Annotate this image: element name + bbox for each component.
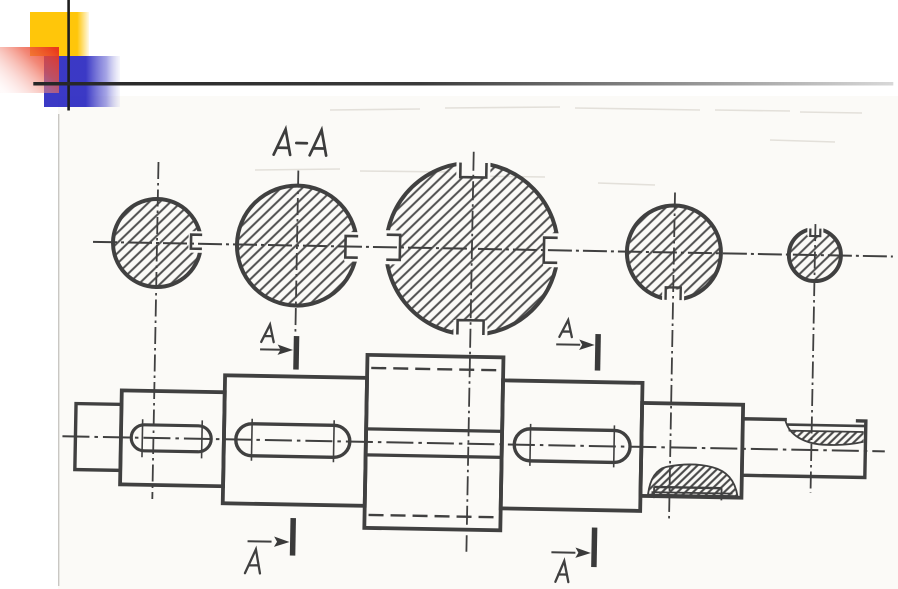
section 6 keyway slot bottom line (654, 487, 721, 488)
corner decoration: vertical black line (67, 0, 70, 111)
shaft section 2 (120, 390, 225, 486)
keyway slot outline circle 2 (345, 236, 358, 258)
cutting plane thick bar (293, 336, 299, 370)
circle 2 vertical center line (295, 171, 298, 332)
section 6 keyway slot left end wall (653, 487, 655, 498)
scan noise marks (255, 107, 862, 185)
scan left edge (58, 114, 60, 586)
cutting plane thick bar (290, 518, 296, 556)
section 4 hidden top keyway dashed line (371, 368, 499, 370)
keyway slot 1 right arc-center tick (201, 420, 204, 458)
keyway cut circle 3 top (456, 155, 490, 177)
scanned paper background (58, 96, 898, 589)
section 4 side keyway upper edge line (366, 429, 502, 431)
letter A label (555, 561, 568, 582)
cutting mark lower-left (245, 517, 296, 574)
letter A label (245, 549, 260, 573)
shaft section 7 (right end) (742, 419, 866, 478)
shaft section 3 (223, 375, 367, 506)
keyway slot 2 left arc-center tick (250, 419, 253, 461)
corner decoration: yellow square (30, 12, 89, 56)
shaft section 6 (640, 403, 743, 498)
cutting plane thick bar (595, 334, 601, 371)
view direction arrow (260, 348, 282, 350)
letter A label (559, 320, 572, 337)
view direction arrow (248, 540, 272, 542)
circle 3 vertical center line (466, 152, 473, 552)
section 4 side keyway lower edge line (366, 455, 502, 457)
section 7 freehand break line (785, 420, 864, 446)
section circle 2 (236, 184, 358, 306)
corner decoration: red square (0, 47, 59, 93)
keyway slot 3 left arc-center tick (529, 424, 532, 466)
section circle 3 (4 keyways) (384, 161, 559, 336)
keyway cut circle 5 top (807, 224, 823, 236)
shaft section 4 (middle) (364, 355, 503, 530)
keyway slot 1 on section 2 (131, 425, 211, 452)
keyway slot 3 on section 5 (514, 429, 630, 463)
keyway slot 1 left arc-center tick (141, 419, 144, 457)
section 7 keyway slot upper edge line (787, 425, 865, 426)
axis line through section circles (93, 242, 893, 257)
keyway cut circle 4 bottom (662, 289, 684, 303)
corner decoration: blue square (44, 56, 120, 107)
broken-out section on section 7 (hatched break area) (785, 420, 864, 446)
shaft axis line (62, 436, 884, 451)
circle 1 vertical center line (152, 162, 158, 499)
section 6 keyway slot right end wall (720, 488, 722, 500)
keyway slot 3 right arc-center tick (613, 425, 616, 467)
section 6 keyway slot lower edge line (652, 492, 733, 493)
letter A label (261, 324, 274, 342)
keyway cut circle 2 (344, 232, 363, 262)
keyway cut circle 1 (188, 231, 207, 253)
shaft section 5 (501, 380, 643, 511)
section circle 5 (788, 229, 841, 282)
section 4 hidden bottom keyway dashed line (369, 515, 497, 517)
keyway slot 2 right arc-center tick (332, 420, 335, 462)
keyway cut circle 3 left (382, 230, 401, 264)
circle 4 vertical center line (669, 192, 675, 520)
cutting mark upper-left (260, 324, 300, 369)
keyway cut circle 3 right (543, 233, 562, 267)
keyway cut circle 3 bottom (453, 320, 487, 342)
cutting mark upper-right (556, 320, 601, 371)
view direction arrow (551, 551, 575, 553)
entire tilted scanned drawing (60, 125, 895, 588)
cutting plane thick bar (591, 528, 597, 568)
keyway slot outline circle 1 (191, 235, 202, 249)
corner decoration: horizontal fading line (33, 82, 893, 86)
circle 5 vertical center line (811, 224, 816, 493)
shaft section 1 (75, 404, 122, 471)
view direction arrow (556, 343, 580, 345)
broken-out section on section 6 (hatched break dome) (648, 464, 738, 497)
section 7 keyway slot bottom line (789, 431, 864, 432)
A-A title (274, 129, 327, 155)
section circle 4 (626, 205, 722, 301)
keyway slot 2 on section 3 (236, 423, 351, 457)
section circle 1 (112, 198, 202, 288)
cutting mark lower-right (551, 527, 598, 583)
